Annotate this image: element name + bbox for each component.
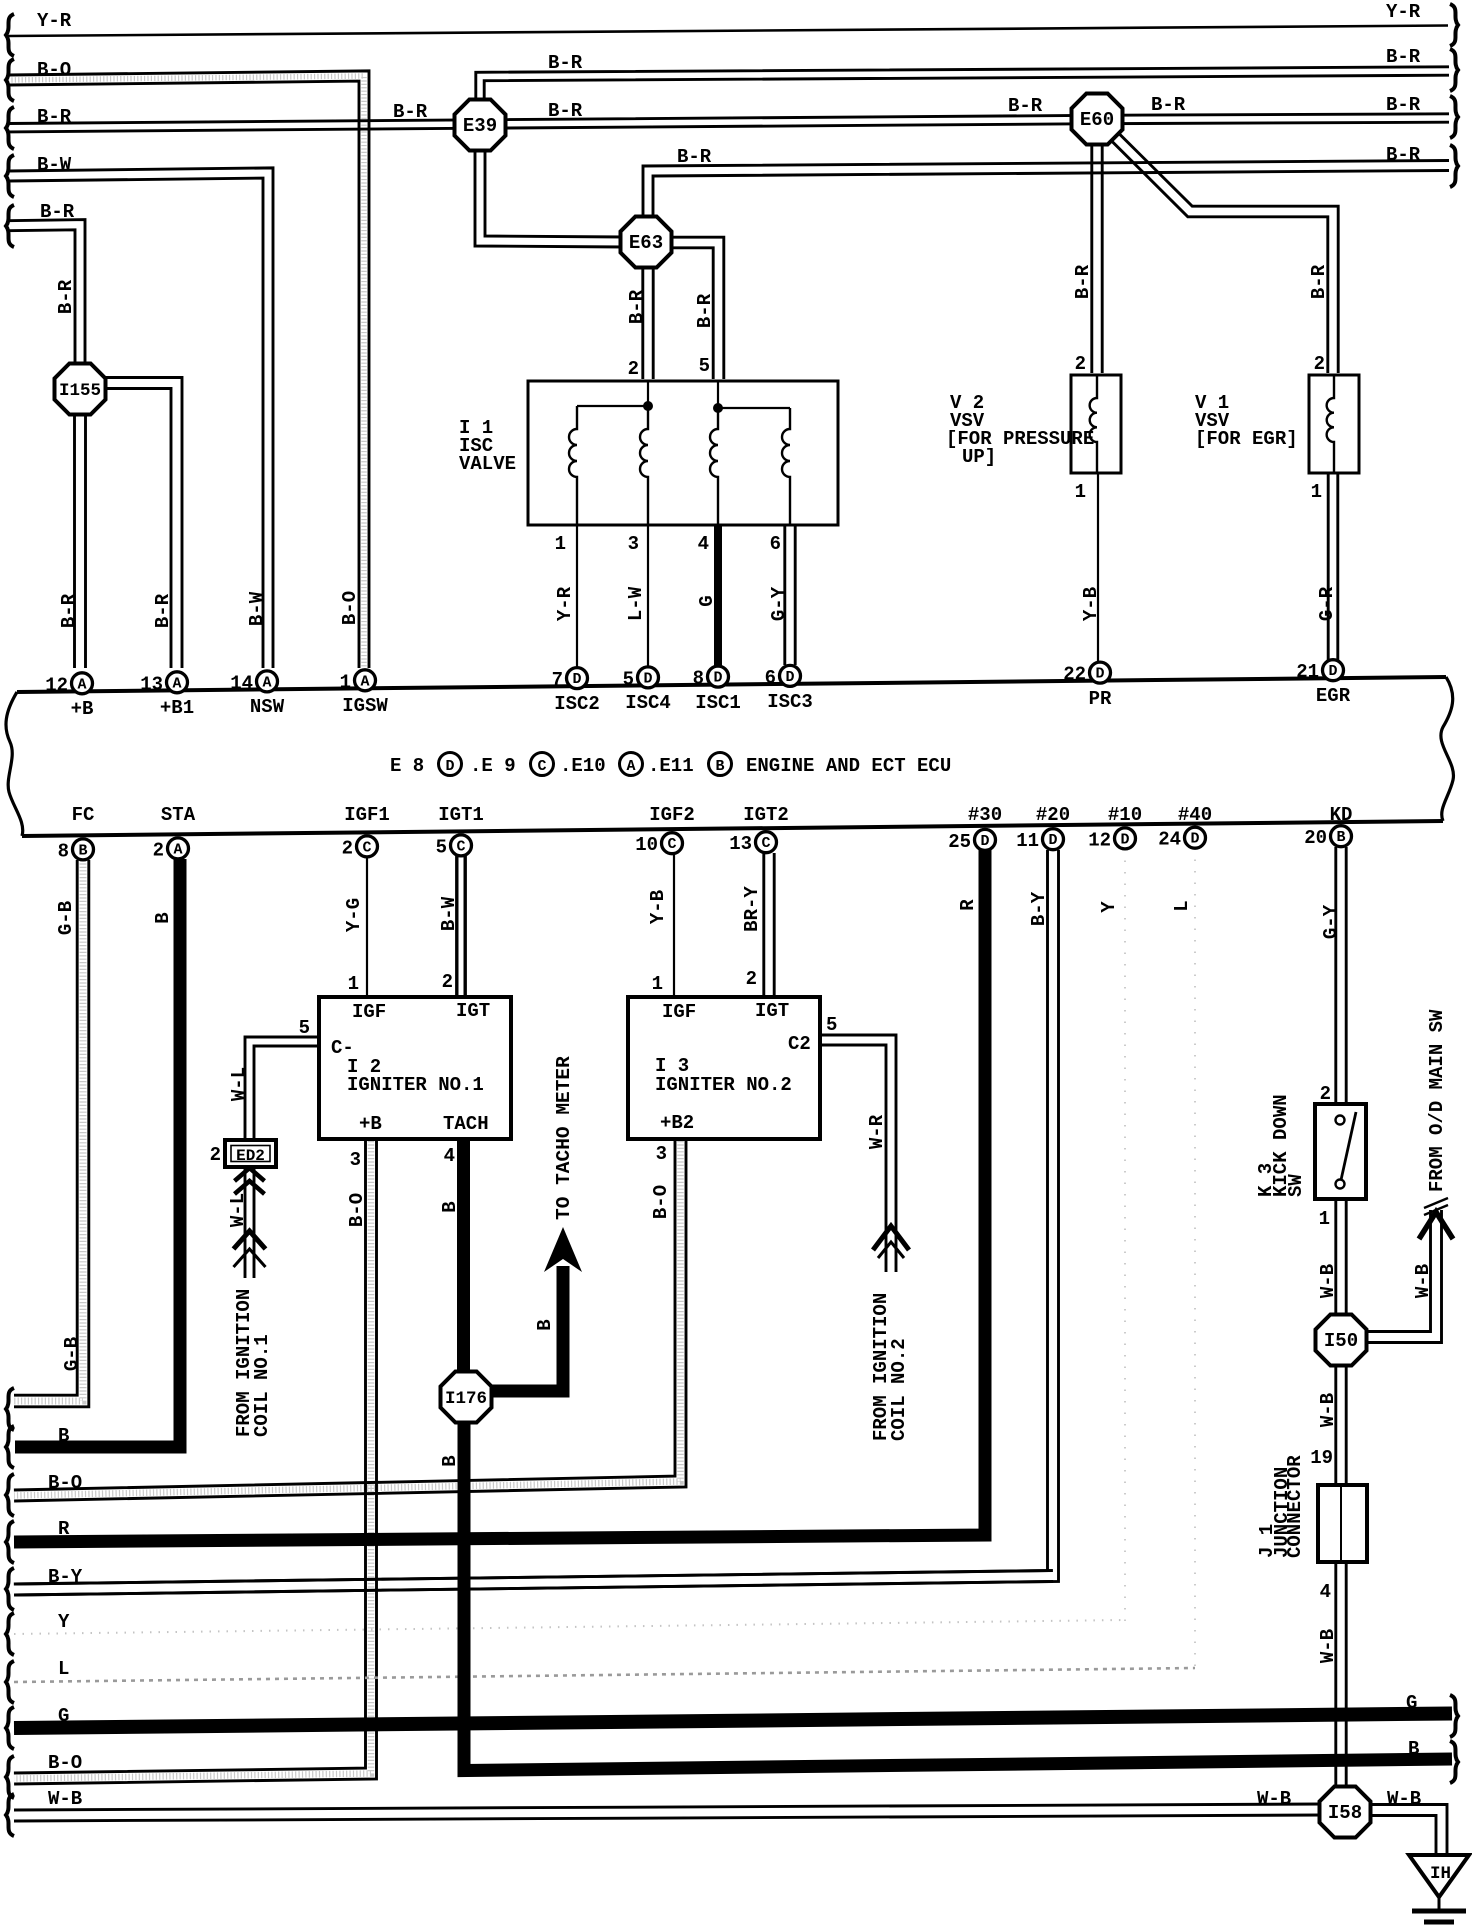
brace left B-W: [6, 155, 14, 197]
svg-text:B: B: [715, 758, 724, 775]
wire L faint bus: [14, 1668, 1195, 1682]
wire B-Y from #20 pin to left edge bus: [14, 850, 1048, 1584]
svg-text:B-R: B-R: [1386, 46, 1421, 68]
svg-text:A: A: [626, 758, 635, 775]
svg-text:B-O: B-O: [346, 1193, 368, 1227]
svg-text:C: C: [667, 836, 676, 853]
svg-text:D: D: [1048, 832, 1057, 849]
brace left Y-R: [6, 14, 14, 56]
svg-text:5: 5: [826, 1014, 837, 1036]
svg-text:ISC4: ISC4: [625, 692, 671, 714]
svg-text:Y-B: Y-B: [1080, 587, 1102, 621]
svg-text:B-R: B-R: [40, 201, 75, 223]
svg-text:B: B: [58, 1425, 69, 1447]
ground IH triangle: [1409, 1855, 1469, 1897]
svg-text:.E 9: .E 9: [470, 755, 516, 777]
svg-text:IGF: IGF: [662, 1001, 696, 1023]
wire white underlays: [8, 76, 364, 668]
svg-text:R: R: [957, 899, 979, 911]
svg-text:5: 5: [436, 836, 447, 858]
svg-text:E 8: E 8: [390, 755, 424, 777]
brace left B-R 2: [6, 205, 14, 247]
svg-text:I50: I50: [1324, 1330, 1358, 1352]
V1 coil: [1327, 375, 1334, 473]
svg-text:8: 8: [58, 840, 69, 862]
ECU pin 13A +B1: [167, 672, 188, 693]
svg-text:I58: I58: [1328, 1802, 1362, 1824]
wire G-Y ISC pin6 to ECU ISC3: [783, 523, 786, 665]
svg-text:B: B: [78, 842, 87, 859]
svg-text:1: 1: [348, 973, 359, 995]
wire B-R main bus through E39 and E60: [8, 122, 1449, 132]
wire E63 right branch to ISC pin 5: [668, 248, 713, 379]
brace left B-Y: [6, 1568, 14, 1610]
kick down switch K3 box: [1315, 1104, 1366, 1199]
svg-text:G: G: [58, 1705, 69, 1727]
svg-text:7: 7: [552, 669, 563, 691]
svg-text:B-R: B-R: [626, 289, 648, 324]
igniter I2 box: [319, 997, 511, 1139]
VSV V1 box: [1309, 375, 1359, 473]
svg-text:20: 20: [1304, 827, 1327, 849]
svg-text:B-R: B-R: [694, 293, 716, 328]
svg-text:ED2: ED2: [236, 1147, 265, 1165]
svg-text:C: C: [362, 839, 371, 856]
svg-text:D: D: [572, 671, 581, 688]
svg-text:25: 25: [948, 831, 971, 853]
svg-text:Y-G: Y-G: [343, 898, 365, 932]
svg-text:IGNITER NO.1: IGNITER NO.1: [347, 1074, 484, 1096]
wire Y-R ISC pin1 to ECU ISC2: [576, 523, 578, 667]
svg-text:W-B: W-B: [1412, 1264, 1434, 1298]
wire L faint from #40 pin: [1194, 848, 1196, 1670]
svg-text:C: C: [456, 838, 465, 855]
ISC coil 4: [782, 408, 790, 525]
svg-text:22: 22: [1063, 664, 1086, 686]
svg-text:5: 5: [299, 1017, 310, 1039]
svg-text:D: D: [713, 670, 722, 687]
svg-text:B-R: B-R: [1386, 94, 1421, 116]
svg-text:Y: Y: [1098, 901, 1120, 913]
ECU pin 22D PR: [1090, 662, 1111, 683]
svg-text:W-B: W-B: [1317, 1264, 1339, 1298]
junction connector J1 box: [1318, 1485, 1367, 1562]
svg-text:13: 13: [140, 673, 163, 695]
svg-text:B-R: B-R: [1008, 95, 1043, 117]
wire BR-Y from IGT2 to igniter I3: [762, 853, 765, 995]
svg-text:A: A: [172, 675, 181, 692]
brace right B: [1450, 1741, 1458, 1783]
ECU pin 6D ISC3: [780, 665, 801, 686]
wire W-B kick down switch to I50: [1334, 1197, 1337, 1318]
wire B-R bus to I155: [8, 230, 75, 366]
brace left B-O low: [6, 1474, 14, 1516]
svg-text:4: 4: [444, 1145, 455, 1167]
wire Y faint bus: [14, 1620, 1125, 1634]
ECU pin 24D #40: [1185, 827, 1206, 848]
svg-text:14: 14: [230, 672, 253, 694]
svg-text:G-Y: G-Y: [1320, 904, 1342, 939]
svg-text:A: A: [360, 673, 369, 690]
svg-text:W-B: W-B: [48, 1788, 82, 1810]
ECU pin 12A +B: [72, 673, 93, 694]
svg-text:A: A: [77, 676, 86, 693]
ECU pin 7D ISC2: [567, 668, 588, 689]
svg-text:.E11: .E11: [648, 755, 694, 777]
svg-text:G-B: G-B: [61, 1337, 83, 1371]
ECU pin 5D ISC4: [638, 667, 659, 688]
wire E63 top branch B-R bus: [653, 171, 1449, 221]
brace left W-B: [6, 1794, 14, 1836]
svg-text:IGF1: IGF1: [344, 804, 390, 826]
wire break ticks O/D: [1424, 1198, 1448, 1208]
svg-text:B: B: [1408, 1738, 1419, 1760]
svg-text:3: 3: [656, 1143, 667, 1165]
wire W-L from I2 C- to ED2: [245, 1037, 321, 1138]
svg-text:D: D: [1120, 831, 1129, 848]
brace right B-R 2: [1450, 49, 1458, 91]
svg-text:W-B: W-B: [1317, 1393, 1339, 1427]
ISC coil 3: [710, 408, 718, 525]
chevron arrow W-L lower b: [234, 1249, 266, 1267]
svg-text:B-W: B-W: [246, 591, 268, 626]
svg-text:ISC2: ISC2: [554, 693, 600, 715]
junction connector E63: [621, 217, 672, 268]
arrow to tacho meter: [544, 1227, 582, 1272]
svg-text:2: 2: [746, 968, 757, 990]
wire B thick from STA pin to left edge: [15, 859, 180, 1447]
svg-text:B: B: [1336, 829, 1345, 846]
wire G thick ISC pin4 to ECU ISC1: [714, 523, 722, 667]
svg-text:B-W: B-W: [438, 896, 460, 931]
svg-text:STA: STA: [161, 804, 196, 826]
svg-text:E60: E60: [1080, 109, 1114, 131]
brace right G: [1450, 1695, 1458, 1737]
wire W-B bottom bus to I58: [14, 1815, 1323, 1821]
svg-text:B-R: B-R: [1386, 144, 1421, 166]
wire E60 bottom to V2 pin 2: [1090, 141, 1093, 373]
svg-text:D: D: [445, 758, 454, 775]
wire Y-R top bus: [8, 26, 1448, 37]
ECU band engine and ECT ECU outline: [17, 677, 1446, 692]
svg-text:2: 2: [210, 1144, 221, 1166]
svg-text:3: 3: [628, 533, 639, 555]
svg-text:G-R: G-R: [1316, 586, 1338, 621]
wire B-W bus to NSW: [8, 178, 263, 668]
svg-text:1: 1: [340, 671, 351, 693]
K3 switch contacts and blade: [1336, 1116, 1345, 1125]
svg-text:B-R: B-R: [548, 52, 583, 74]
igniter I3 box: [628, 997, 820, 1139]
svg-text:ENGINE AND ECT ECU: ENGINE AND ECT ECU: [746, 755, 951, 777]
wire Y-B V2 pin1 to ECU PR: [1097, 471, 1099, 662]
brace right B-R 3: [1450, 96, 1458, 138]
connector ED2: [225, 1140, 276, 1167]
brace left L: [6, 1661, 14, 1703]
wire Y faint from #10 pin: [1124, 849, 1126, 1622]
wire E63 bottom to ISC pin 2: [641, 264, 644, 379]
svg-text:2: 2: [442, 971, 453, 993]
wire R thick from #30 pin to left edge bus: [14, 850, 985, 1542]
wire G-Y from KD pin to kick down switch: [1334, 847, 1337, 1102]
wire W-L below ED2: [244, 1168, 247, 1278]
svg-text:B-Y: B-Y: [48, 1566, 83, 1588]
ECU pin 12D #10: [1115, 828, 1136, 849]
svg-text:EGR: EGR: [1316, 685, 1351, 707]
wire E60 diagonal branch to V1 pin 2: [1107, 137, 1328, 373]
svg-text:NSW: NSW: [250, 696, 285, 718]
ECU pin 21D EGR: [1323, 660, 1344, 681]
svg-text:G-B: G-B: [55, 901, 77, 935]
junction connector E39: [455, 100, 506, 151]
svg-text:D: D: [980, 833, 989, 850]
wire B-Y bottom bus: [14, 1582, 1053, 1596]
ECU band right wavy edge: [1441, 677, 1454, 821]
ISC valve I1 box: [528, 381, 838, 525]
svg-text:B-R: B-R: [37, 106, 72, 128]
svg-text:D: D: [1190, 831, 1199, 848]
svg-text:B-R: B-R: [548, 100, 583, 122]
ISC internal top rail pin2: [577, 381, 648, 406]
svg-text:IGSW: IGSW: [342, 695, 388, 717]
wire W-B I58 to IH ground: [1367, 1816, 1436, 1858]
svg-text:BR-Y: BR-Y: [741, 886, 763, 932]
svg-text:+B2: +B2: [660, 1112, 694, 1134]
chevron arrow W-L lower a: [234, 1231, 266, 1249]
svg-text:B-Y: B-Y: [1028, 891, 1050, 926]
svg-text:1: 1: [1311, 481, 1322, 503]
VSV V2 box: [1071, 375, 1121, 473]
ISC internal top rail pin5: [718, 381, 790, 408]
svg-text:L: L: [1171, 900, 1193, 911]
chevron arrow W-R wire inner: [878, 1242, 904, 1258]
svg-text:B-R: B-R: [393, 101, 428, 123]
brace left Y: [6, 1613, 14, 1655]
svg-text:G: G: [1406, 1692, 1417, 1714]
svg-text:1: 1: [555, 533, 566, 555]
svg-text:B-R: B-R: [55, 279, 77, 314]
wire I155 right branch B-R to +B1 pin 13: [102, 389, 171, 669]
wire G thick bottom bus: [14, 1714, 1452, 1729]
svg-text:+B1: +B1: [160, 697, 194, 719]
svg-text:#30: #30: [968, 804, 1002, 826]
ECU pin 2C IGF1: [357, 836, 378, 857]
wire W-B I50 to J1 pin 19: [1334, 1362, 1337, 1487]
wire Y-B from IGF2 to igniter I3: [673, 854, 675, 995]
svg-text:.E10: .E10: [560, 755, 606, 777]
wire Y-G from IGF1 to igniter I2: [366, 857, 368, 995]
svg-text:+B: +B: [71, 698, 94, 720]
wire G-B from FC pin to left edge: [14, 860, 77, 1395]
wire B-W from IGT1 to igniter I2: [455, 856, 458, 995]
ISC coil 2: [640, 406, 648, 525]
svg-text:B-R: B-R: [58, 593, 80, 628]
wire B-O from I3 +B2 down to B-O bus to left edge: [14, 1141, 675, 1490]
svg-text:12: 12: [1088, 829, 1111, 851]
brace left G: [6, 1707, 14, 1749]
svg-text:C: C: [537, 758, 546, 775]
ECU pin 13C IGT2: [756, 832, 777, 853]
ECU pin 11D #20: [1043, 829, 1064, 850]
svg-text:I176: I176: [445, 1389, 487, 1409]
wire B thick I176 right to tacho arrow: [489, 1266, 563, 1391]
svg-text:SW: SW: [1285, 1174, 1307, 1197]
wire E39 top branch B-R bus: [484, 75, 1449, 104]
wire dither centers: [8, 76, 364, 668]
wire B-O top bus to IGSW: [8, 81, 359, 668]
chevron arrow below ED2 b: [235, 1181, 265, 1194]
brace left G-B: [6, 1388, 14, 1430]
svg-text:W-B: W-B: [1257, 1788, 1291, 1810]
svg-text:D: D: [1095, 666, 1104, 683]
svg-text:6: 6: [765, 667, 776, 689]
svg-text:#10: #10: [1108, 804, 1142, 826]
svg-text:12: 12: [45, 674, 68, 696]
svg-text:A: A: [173, 841, 182, 858]
svg-text:C: C: [761, 835, 770, 852]
svg-text:UP]: UP]: [962, 446, 996, 468]
svg-text:IGT2: IGT2: [743, 804, 789, 826]
svg-text:IGT: IGT: [755, 1000, 789, 1022]
svg-text:B-O: B-O: [48, 1472, 82, 1494]
junction dot ISC pin2 rail: [643, 401, 653, 411]
svg-text:Y-R: Y-R: [554, 586, 576, 621]
V2 coil: [1090, 375, 1097, 473]
svg-text:2: 2: [1320, 1083, 1331, 1105]
svg-text:2: 2: [342, 837, 353, 859]
wire B-O from I2 +B down to lower B-O bus: [14, 1141, 366, 1773]
svg-text:B: B: [439, 1201, 461, 1212]
svg-text:A: A: [262, 674, 271, 691]
svg-text:2: 2: [1075, 353, 1086, 375]
svg-text:24: 24: [1158, 829, 1181, 851]
svg-text:2: 2: [1314, 353, 1325, 375]
ECU pin 2A STA: [168, 838, 189, 859]
svg-text:Y: Y: [58, 1611, 70, 1633]
svg-text:C2: C2: [788, 1033, 811, 1055]
svg-text:KD: KD: [1330, 804, 1353, 826]
svg-text:B-O: B-O: [37, 59, 71, 81]
svg-text:B-O: B-O: [48, 1752, 82, 1774]
junction dot ISC pin5 rail: [713, 403, 723, 413]
svg-text:IGNITER NO.2: IGNITER NO.2: [655, 1074, 792, 1096]
svg-text:B-O: B-O: [650, 1185, 672, 1219]
wire W-B J1 pin 4 to I58: [1334, 1560, 1337, 1789]
svg-text:2: 2: [153, 839, 164, 861]
chevron arrow below ED2 a: [235, 1168, 265, 1181]
brace left B-O: [6, 59, 14, 101]
svg-text:1: 1: [1319, 1208, 1330, 1230]
svg-text:19: 19: [1310, 1447, 1333, 1469]
svg-text:FROM O/D MAIN SW: FROM O/D MAIN SW: [1426, 1009, 1448, 1192]
svg-text:[FOR EGR]: [FOR EGR]: [1195, 428, 1298, 450]
svg-text:ISC1: ISC1: [695, 692, 741, 714]
svg-text:CONNECTOR: CONNECTOR: [1284, 1455, 1306, 1558]
svg-text:ISC3: ISC3: [767, 691, 813, 713]
wire B thick I176 down and right to edge: [464, 1420, 1452, 1771]
svg-text:13: 13: [729, 833, 752, 855]
svg-text:COIL NO.1: COIL NO.1: [251, 1334, 273, 1437]
brace left R: [6, 1521, 14, 1563]
chevron arrow from O/D main switch: [1419, 1212, 1453, 1239]
wire E39 to E63 link B-R: [475, 146, 625, 247]
ECU pin 14A NSW: [257, 671, 278, 692]
svg-text:IGT: IGT: [456, 1000, 490, 1022]
svg-text:4: 4: [698, 533, 709, 555]
junction connector I50: [1316, 1315, 1367, 1366]
svg-text:W-L: W-L: [228, 1067, 250, 1101]
svg-text:B: B: [439, 1455, 461, 1466]
svg-text:VALVE: VALVE: [459, 453, 516, 475]
svg-text:Y-R: Y-R: [37, 10, 72, 32]
svg-text:TO TACHO METER: TO TACHO METER: [553, 1056, 575, 1220]
svg-text:W-B: W-B: [1387, 1788, 1421, 1810]
brace left B: [6, 1426, 14, 1468]
svg-text:G-Y: G-Y: [768, 586, 790, 621]
brace right B-R 4: [1450, 145, 1458, 187]
svg-text:Y-R: Y-R: [1386, 1, 1421, 23]
svg-text:5: 5: [623, 668, 634, 690]
svg-text:3: 3: [350, 1149, 361, 1171]
svg-text:1: 1: [652, 973, 663, 995]
svg-text:IGF: IGF: [352, 1001, 386, 1023]
svg-text:L: L: [58, 1658, 69, 1680]
svg-text:TACH: TACH: [443, 1113, 489, 1135]
svg-text:B-R: B-R: [1072, 264, 1094, 299]
chevron arrow W-R wire: [873, 1226, 909, 1250]
svg-text:E63: E63: [629, 232, 663, 254]
svg-text:D: D: [1328, 663, 1337, 680]
ECU pin 1A IGSW: [355, 670, 376, 691]
svg-text:B-R: B-R: [677, 146, 712, 168]
svg-text:8: 8: [693, 668, 704, 690]
svg-text:IGT1: IGT1: [438, 804, 484, 826]
svg-text:R: R: [58, 1518, 70, 1540]
svg-text:11: 11: [1016, 830, 1039, 852]
svg-text:W-R: W-R: [866, 1114, 888, 1149]
svg-text:G: G: [696, 595, 718, 606]
svg-text:FC: FC: [72, 804, 95, 826]
svg-text:2: 2: [628, 358, 639, 380]
svg-text:B-R: B-R: [152, 593, 174, 628]
svg-text:5: 5: [699, 355, 710, 377]
svg-text:21: 21: [1296, 661, 1319, 683]
wire B thick TACH to I176: [457, 1141, 470, 1374]
junction connector I155: [55, 364, 106, 415]
ECU band left wavy edge: [6, 692, 23, 836]
svg-text:D: D: [643, 670, 652, 687]
junction connector I176: [441, 1372, 492, 1423]
svg-text:1: 1: [1075, 481, 1086, 503]
svg-text:IGF2: IGF2: [649, 804, 695, 826]
svg-text:IH: IH: [1430, 1864, 1451, 1884]
svg-text:10: 10: [635, 834, 658, 856]
wire through J1: [1340, 1485, 1342, 1562]
svg-text:+B: +B: [359, 1113, 382, 1135]
svg-text:4: 4: [1320, 1581, 1331, 1603]
svg-text:B: B: [152, 912, 174, 923]
brace left B-R: [6, 107, 14, 149]
junction connector E60: [1072, 94, 1123, 145]
wire W-R from I3 C2 down: [818, 1045, 886, 1272]
svg-text:B-R: B-R: [1151, 94, 1186, 116]
ECU pin 20B KD: [1331, 826, 1352, 847]
svg-text:I155: I155: [59, 381, 101, 401]
wire G-R V1 pin1 to ECU EGR: [1327, 471, 1330, 660]
ground stem and bars: [1438, 1897, 1441, 1909]
svg-text:D: D: [785, 669, 794, 686]
svg-text:PR: PR: [1089, 688, 1112, 710]
